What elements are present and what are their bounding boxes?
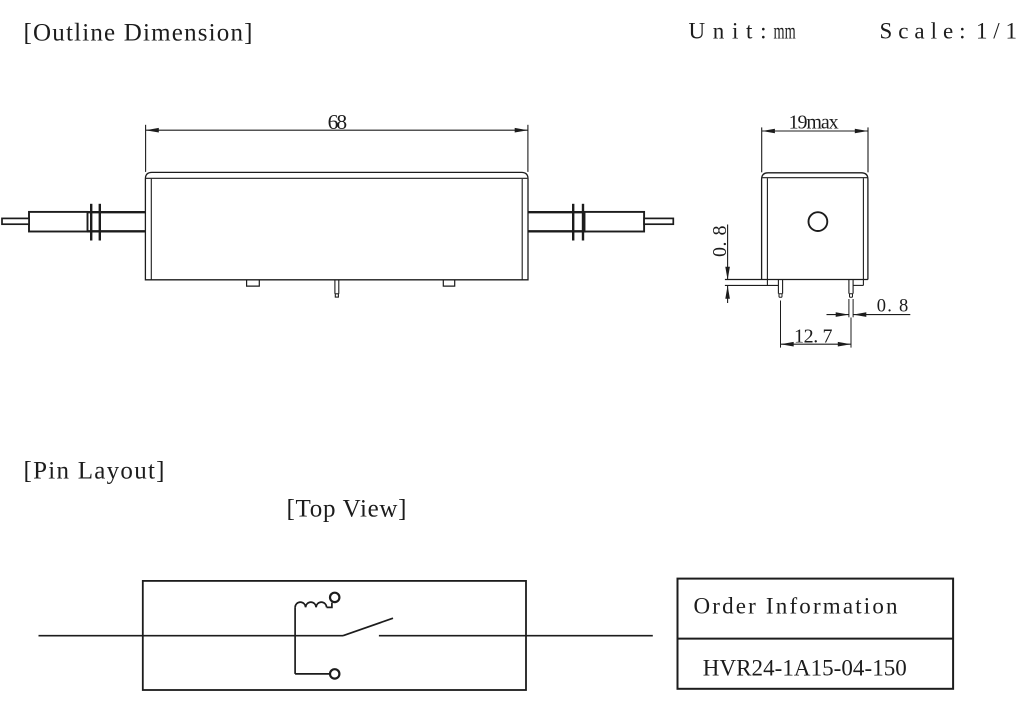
right terminal flange bar 2 bbox=[582, 204, 584, 241]
front view left pin bbox=[778, 280, 782, 294]
left terminal flange bar 2 bbox=[99, 204, 101, 241]
standoff bottom edge right bbox=[853, 284, 863, 286]
dimension 68 line bbox=[146, 129, 528, 131]
left terminal body bbox=[29, 212, 88, 232]
wire left bbox=[39, 635, 344, 637]
wire right bbox=[379, 635, 653, 637]
coil terminal circle bottom bbox=[330, 669, 339, 678]
right terminal flange bar 1 bbox=[572, 204, 574, 241]
bottom standoff stub left bbox=[247, 280, 260, 286]
dimension 19max arrow right bbox=[855, 129, 868, 134]
dimension 19max line bbox=[762, 130, 868, 132]
right terminal lead wires bbox=[528, 211, 586, 213]
right terminal pin bbox=[644, 218, 673, 224]
dimension 68 arrow left bbox=[146, 128, 159, 133]
dimension 19max arrow left bbox=[762, 129, 775, 134]
dimension 12.7 arrow right bbox=[838, 342, 851, 347]
relay body side view outline bbox=[145, 172, 528, 279]
coil bottom lead bbox=[295, 673, 329, 675]
switch blade bbox=[343, 618, 393, 636]
svg-text:[Top View]: [Top View] bbox=[287, 496, 407, 523]
dimension 12.7 arrow left bbox=[781, 342, 794, 347]
dimension 12.7 extension line right bbox=[850, 318, 852, 348]
svg-text:mm: mm bbox=[774, 19, 796, 44]
coil top jog bbox=[327, 603, 332, 608]
relay body front view inner top seam bbox=[762, 177, 867, 179]
svg-text:19max: 19max bbox=[789, 111, 839, 133]
svg-text:Order Information: Order Information bbox=[694, 594, 899, 619]
right terminal body bbox=[585, 212, 645, 232]
order information table divider bbox=[678, 638, 954, 640]
dimension 68 arrow right bbox=[515, 128, 528, 133]
dimension 0.8 right line right part bbox=[853, 314, 910, 316]
standoff bottom edge left bbox=[725, 284, 779, 286]
dimension 0.8 right line left part bbox=[827, 314, 849, 316]
svg-text:[Pin Layout]: [Pin Layout] bbox=[24, 458, 165, 485]
svg-text:HVR24-1A15-04-150: HVR24-1A15-04-150 bbox=[703, 656, 907, 681]
bottom middle pin bbox=[334, 280, 336, 294]
dimension 12.7 extension line left (pin centerline) bbox=[780, 301, 782, 348]
order information table bbox=[678, 579, 954, 689]
relay body side view inner left seam bbox=[150, 179, 152, 280]
relay body front view bottom edge with left extension bbox=[725, 279, 868, 281]
svg-text:[Outline Dimension]: [Outline Dimension] bbox=[24, 19, 253, 46]
relay body front view inner right seam bbox=[862, 178, 864, 285]
bottom standoff stub right bbox=[443, 280, 454, 286]
dimension 19max extension line right bbox=[867, 127, 869, 172]
left terminal flange bar 1 bbox=[90, 204, 92, 241]
coil terminal circle top bbox=[330, 593, 339, 602]
relay body side view inner top seam bbox=[146, 177, 527, 179]
relay body side view inner right seam bbox=[521, 179, 523, 280]
svg-text:1/1: 1/1 bbox=[976, 19, 1017, 44]
dimension 0.8 left arrow line lower bbox=[727, 286, 729, 304]
pin layout rectangle bbox=[143, 581, 526, 690]
dimension 68 extension line right bbox=[527, 125, 529, 172]
dimension 19max extension line left bbox=[761, 127, 763, 172]
left terminal pin bbox=[2, 218, 29, 224]
dimension 68 extension line left bbox=[145, 125, 147, 172]
coil loops bbox=[295, 602, 327, 607]
coil vertical wire bbox=[294, 607, 296, 674]
relay body front view outline bbox=[762, 173, 868, 280]
dimension 0.8 left arrow line upper bbox=[727, 225, 729, 281]
marking circle bbox=[809, 212, 828, 231]
relay body front view inner left seam bbox=[766, 178, 768, 285]
svg-text:12. 7: 12. 7 bbox=[794, 326, 833, 348]
dimension 12.7 line bbox=[781, 343, 852, 345]
front view right pin bbox=[849, 280, 853, 294]
dimension 0.8 right pin edge extension lines bbox=[848, 299, 850, 317]
svg-text:0. 8: 0. 8 bbox=[877, 297, 909, 317]
left terminal lead wires bbox=[87, 211, 145, 213]
